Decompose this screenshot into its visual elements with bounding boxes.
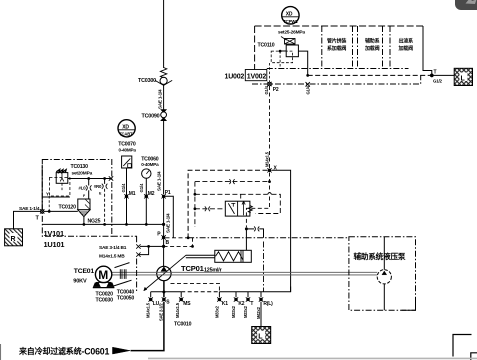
group box top edge <box>255 25 423 27</box>
port P1 <box>161 190 171 199</box>
svg-text:T: T <box>250 301 253 307</box>
big frame left chain edge <box>136 236 138 292</box>
svg-text:T: T <box>434 70 437 76</box>
svg-text:1V101: 1V101 <box>44 229 64 238</box>
wire B1 junction to main <box>149 245 164 247</box>
outer dashed box top <box>188 170 267 238</box>
svg-text:G1/2: G1/2 <box>433 79 442 84</box>
port R(L) <box>256 297 273 319</box>
svg-text:SAE 2-1/2: SAE 2-1/2 <box>158 303 163 321</box>
svg-text:Y: Y <box>46 192 49 197</box>
pilot line to valve spring side (with bridge) <box>195 194 268 201</box>
tank L box (top right) <box>454 68 472 85</box>
plugged port X on boundary <box>109 176 113 180</box>
control valve (2-pos) <box>225 201 252 216</box>
left frame edge <box>0 344 2 360</box>
svg-text:TCE01: TCE01 <box>74 268 95 275</box>
title block corner <box>453 335 477 360</box>
regulator box bottom <box>188 237 349 239</box>
svg-text:M14x1.5: M14x1.5 <box>264 151 269 167</box>
svg-text:来自冷却过滤系统: 来自冷却过滤系统 <box>18 346 82 356</box>
svg-text:1U002: 1U002 <box>225 73 245 80</box>
port MS <box>175 297 191 318</box>
port T2 <box>243 297 254 318</box>
orifice #L0 <box>79 177 92 199</box>
svg-text:T: T <box>36 216 40 222</box>
port T <box>19 206 44 222</box>
port LU <box>146 297 160 318</box>
svg-text:M1: M1 <box>129 191 136 197</box>
tank L box (bottom) <box>252 327 271 344</box>
svg-text:SAE 1-1/4: SAE 1-1/4 <box>165 213 170 233</box>
sensor circle XD/TCABT <box>118 120 135 137</box>
svg-text:set25-26MPa: set25-26MPa <box>278 30 305 36</box>
svg-text:1V002: 1V002 <box>247 73 267 80</box>
port K2 <box>231 297 245 318</box>
svg-text:TC0090: TC0090 <box>142 114 160 120</box>
wire T to filter <box>42 210 78 212</box>
svg-text:TC0010: TC0010 <box>174 322 192 328</box>
tank R box <box>5 229 23 246</box>
drive shaft double line <box>112 272 378 275</box>
drain chain line y68.5 <box>267 68 409 70</box>
svg-text:TC0030: TC0030 <box>96 298 114 304</box>
svg-text:TC0050: TC0050 <box>117 296 135 302</box>
svg-text:加载阀: 加载阀 <box>364 45 380 52</box>
UI overlay blob top-right <box>455 0 477 10</box>
wire T to tank L <box>434 74 455 76</box>
pilot orifice into valve <box>195 206 225 211</box>
aux pump symbol <box>377 237 391 310</box>
section divider 2b <box>357 26 359 69</box>
wire below check valve <box>163 85 165 109</box>
svg-text:#L0: #L0 <box>79 186 87 191</box>
svg-text:G1/4: G1/4 <box>139 183 144 192</box>
dashed link B to box <box>166 238 193 247</box>
section divider 3a <box>382 26 384 69</box>
svg-text:S: S <box>166 300 170 306</box>
bridge hump <box>268 193 272 195</box>
svg-text:R(L): R(L) <box>263 301 273 307</box>
svg-text:-C0601: -C0601 <box>82 347 110 357</box>
svg-text:TC0300: TC0300 <box>138 78 156 84</box>
svg-text:K1: K1 <box>222 301 228 307</box>
junction M-bus <box>162 223 165 226</box>
group box right edge <box>423 26 432 76</box>
M-bus wire <box>42 223 163 225</box>
junction B1 tee <box>162 245 165 248</box>
flow arrow <box>113 347 131 354</box>
svg-text:P1: P1 <box>165 190 171 196</box>
svg-text:B: B <box>166 240 170 246</box>
check valve TC0300 <box>138 68 172 86</box>
svg-text:NG25: NG25 <box>88 219 101 225</box>
svg-text:TC0130: TC0130 <box>71 164 89 170</box>
junction + orifice (lower) <box>245 227 264 238</box>
wire P1 to P <box>163 196 165 237</box>
wire main supply line from top <box>163 0 165 68</box>
port MB with line <box>99 252 141 259</box>
svg-text:G1/4: G1/4 <box>121 183 126 192</box>
svg-text:G1/4: G1/4 <box>264 85 269 94</box>
port B1 with line <box>99 244 150 254</box>
motor TCE01 <box>73 266 114 287</box>
sensor circle XD/TCPW1 <box>282 7 299 24</box>
bottom port rail <box>151 291 182 293</box>
svg-text:辅助系统液压泵: 辅助系统液压泵 <box>354 251 406 261</box>
svg-text:M: M <box>98 268 108 282</box>
inner dashed left edge <box>194 182 196 227</box>
group box left edge <box>254 26 256 70</box>
boundary chain line y84 <box>252 75 421 84</box>
svg-text:SAE 3-1/4 B1: SAE 3-1/4 B1 <box>99 245 127 251</box>
svg-text:辅助系: 辅助系 <box>365 38 380 45</box>
X pilot drop center (crosses bridge) <box>246 173 269 228</box>
boundary chain x263.5 <box>263 242 265 293</box>
port X <box>264 151 277 172</box>
pressure transmitter TC0070 <box>118 141 136 196</box>
svg-text:M33x2: M33x2 <box>231 305 236 318</box>
svg-text:0-40MPa: 0-40MPa <box>141 162 159 167</box>
port P2 <box>264 63 279 95</box>
svg-text:系加载阀: 系加载阀 <box>327 45 346 52</box>
wire pump to S <box>163 281 165 298</box>
svg-text:M14x1.5: M14x1.5 <box>175 302 180 318</box>
svg-text:M14x1.5: M14x1.5 <box>146 302 151 318</box>
wire R(L) to tank L <box>260 302 262 327</box>
svg-text:加载阀: 加载阀 <box>398 45 414 52</box>
svg-text:TCPW1: TCPW1 <box>283 19 298 24</box>
svg-text:G1/4: G1/4 <box>306 85 311 94</box>
svg-text:TC0110: TC0110 <box>258 43 275 49</box>
relief valve TC0110 <box>258 30 308 76</box>
K port rail <box>219 287 290 292</box>
wire T to tank R <box>14 211 41 228</box>
coupling <box>96 263 135 304</box>
port M1 <box>121 183 136 224</box>
svg-text:R: R <box>11 236 16 243</box>
svg-text:SAE 1-1/4: SAE 1-1/4 <box>156 171 161 191</box>
wire control to actuator <box>245 229 247 250</box>
port P <box>157 232 169 247</box>
svg-text:TCP01: TCP01 <box>181 264 205 273</box>
pilot line P2 down to X <box>269 86 271 168</box>
section divider 2a <box>352 26 354 69</box>
filter TC0120 <box>59 199 101 225</box>
svg-text:1U101: 1U101 <box>44 240 65 249</box>
port K1 <box>214 297 228 318</box>
svg-text:0-40MPa: 0-40MPa <box>119 147 137 152</box>
svg-text:XD: XD <box>122 124 129 130</box>
aux enclosure box <box>349 237 416 310</box>
wire down to P1 <box>163 121 165 194</box>
wire relief drain to T <box>42 196 70 198</box>
port T (top right) <box>430 70 442 84</box>
plugged port G1/4 <box>306 82 311 94</box>
svg-text:MS: MS <box>183 301 191 307</box>
svg-text:#R0: #R0 <box>94 184 102 189</box>
port S <box>158 297 170 321</box>
svg-text:SAE 1-1/4: SAE 1-1/4 <box>157 89 162 109</box>
bottom frame grey line <box>148 357 477 359</box>
pressure gauge TC0060 <box>141 157 159 197</box>
svg-text:K2: K2 <box>238 301 244 307</box>
svg-text:P2: P2 <box>273 87 279 93</box>
svg-text:XD: XD <box>286 11 293 17</box>
label plate 1U002 1V002 <box>225 70 267 81</box>
svg-text:F: F <box>83 194 86 198</box>
svg-text:M42x2: M42x2 <box>256 306 261 319</box>
pump case drain dashed <box>171 283 220 291</box>
junction on T line <box>306 74 309 77</box>
svg-text:M33x2: M33x2 <box>243 305 248 318</box>
svg-text:管片拼装: 管片拼装 <box>327 38 346 45</box>
relief valve TC0130 <box>56 164 111 192</box>
svg-text:P: P <box>157 232 161 238</box>
stroking cylinder with spring <box>186 250 252 262</box>
svg-text:E: E <box>99 192 102 196</box>
svg-text:出渣系: 出渣系 <box>399 38 414 45</box>
drain dashed line y75.4 to T <box>308 74 432 76</box>
enclosure 1V101 (chain line) <box>42 160 112 237</box>
wire P1 branch right/down <box>164 196 174 237</box>
pilot line with orifice (upper) <box>195 179 271 184</box>
svg-text:90KV: 90KV <box>73 279 87 285</box>
svg-text:M2: M2 <box>148 191 155 197</box>
section divider 3b <box>389 26 391 69</box>
svg-text:M14x1.5 MB: M14x1.5 MB <box>99 253 125 259</box>
wire P to pump <box>163 237 165 266</box>
port M2 <box>139 183 155 224</box>
svg-text:M33x2: M33x2 <box>214 305 219 318</box>
orifice #R0 <box>94 177 108 224</box>
svg-text:TC0120: TC0120 <box>59 205 77 211</box>
wire X to right drop <box>272 170 291 292</box>
shutoff valve TC0090 <box>142 110 167 121</box>
svg-text:TCABT: TCABT <box>119 132 133 137</box>
suction line from cooling system <box>131 302 164 351</box>
section divider 1 <box>321 26 323 69</box>
svg-text:set20MPa: set20MPa <box>72 171 93 177</box>
pilot dashed box <box>49 178 70 197</box>
